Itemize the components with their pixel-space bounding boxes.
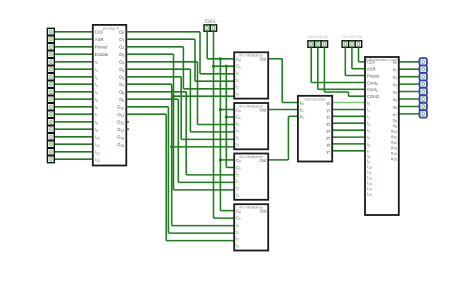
svg-text:Cont0: Cont0 — [367, 80, 378, 86]
svg-text:y5: y5 — [326, 135, 330, 141]
svg-text:o5: o5 — [393, 97, 397, 103]
svg-text:I1: I1 — [95, 67, 98, 73]
svg-text:ASR: ASR — [367, 67, 376, 72]
svg-text:I0: I0 — [236, 222, 239, 228]
svg-text:Out: Out — [260, 209, 268, 214]
svg-text:I3: I3 — [236, 142, 239, 148]
svg-text:C1: C1 — [236, 114, 241, 120]
svg-text:y6: y6 — [326, 142, 330, 148]
svg-text:Preset: Preset — [95, 45, 108, 50]
svg-text:CLK: CLK — [367, 60, 375, 65]
svg-text:C0: C0 — [236, 158, 241, 164]
svg-text:I0: I0 — [236, 121, 239, 127]
svg-text:y2: y2 — [326, 114, 330, 120]
svg-text:I2: I2 — [236, 185, 239, 191]
svg-text:C0C1: C0C1 — [205, 18, 216, 24]
svg-text:I1: I1 — [236, 128, 239, 134]
svg-text:C0: C0 — [236, 57, 241, 63]
svg-text:O10: O10 — [117, 105, 124, 111]
svg-text:Out: Out — [260, 158, 268, 163]
svg-text:O4: O4 — [119, 60, 124, 66]
svg-text:I5: I5 — [95, 97, 98, 103]
svg-text:C1: C1 — [236, 165, 241, 171]
svg-text:o7: o7 — [393, 112, 397, 118]
svg-text:o15: o15 — [391, 156, 397, 162]
svg-text:O5: O5 — [119, 67, 124, 73]
svg-text:COnt2: COnt2 — [367, 94, 380, 99]
svg-text:I6: I6 — [95, 105, 98, 111]
svg-text:I5: I5 — [367, 135, 370, 141]
svg-text:ASR: ASR — [95, 37, 104, 42]
svg-text:I0: I0 — [95, 60, 98, 66]
svg-text:I4: I4 — [367, 128, 370, 134]
svg-text:I12: I12 — [95, 150, 100, 156]
svg-text:O11: O11 — [117, 112, 124, 118]
svg-text:O1: O1 — [119, 37, 124, 43]
svg-text:b0: b0 — [300, 101, 304, 107]
svg-text:Out: Out — [260, 57, 268, 62]
svg-text:Preset: Preset — [367, 74, 380, 79]
svg-text:y1: y1 — [326, 107, 330, 113]
svg-text:o9: o9 — [393, 123, 397, 129]
svg-text:O6: O6 — [119, 75, 124, 81]
svg-text:3x8 Decoder: 3x8 Decoder — [304, 97, 326, 101]
svg-text:I3: I3 — [367, 121, 370, 127]
svg-text:I3: I3 — [236, 192, 239, 198]
svg-text:I3: I3 — [236, 91, 239, 97]
svg-text:I4: I4 — [95, 90, 98, 96]
svg-text:O8: O8 — [119, 90, 124, 96]
svg-text:I9: I9 — [95, 127, 98, 133]
svg-text:I1: I1 — [236, 229, 239, 235]
svg-text:o2: o2 — [393, 75, 397, 81]
svg-text:I8: I8 — [95, 120, 98, 126]
svg-text:CLK: CLK — [95, 30, 103, 35]
svg-text:I2: I2 — [236, 236, 239, 242]
svg-text:y0: y0 — [326, 101, 330, 107]
svg-text:I7: I7 — [95, 112, 98, 118]
svg-text:I0: I0 — [236, 172, 239, 178]
svg-text:I2: I2 — [236, 135, 239, 141]
svg-text:O3: O3 — [119, 52, 124, 58]
svg-text:I3: I3 — [236, 243, 239, 249]
svg-text:I2: I2 — [95, 75, 98, 81]
svg-text:C1: C1 — [236, 64, 241, 70]
svg-text:o1: o1 — [393, 67, 397, 73]
svg-text:y4: y4 — [326, 128, 330, 134]
svg-text:I2: I2 — [236, 84, 239, 90]
svg-text:o6: o6 — [393, 104, 397, 110]
svg-text:Cnt0Cnt1Cnt2: Cnt0Cnt1Cnt2 — [307, 35, 328, 39]
svg-text:y7: y7 — [326, 149, 330, 155]
svg-text:o3: o3 — [393, 82, 397, 88]
svg-text:Cont1: Cont1 — [367, 87, 378, 93]
svg-text:O9: O9 — [119, 97, 124, 103]
svg-text:O13: O13 — [117, 127, 124, 133]
svg-text:I13: I13 — [95, 157, 100, 163]
svg-text:O12: O12 — [117, 120, 124, 126]
svg-text:o4: o4 — [393, 90, 397, 96]
svg-text:I0: I0 — [367, 101, 370, 107]
svg-text:Out: Out — [260, 107, 268, 112]
svg-text:O7: O7 — [119, 82, 124, 88]
svg-text:b2: b2 — [300, 114, 304, 120]
svg-text:I3: I3 — [95, 82, 98, 88]
svg-text:y3: y3 — [326, 121, 330, 127]
svg-text:CLK ASR Prst: CLK ASR Prst — [342, 35, 363, 39]
svg-text:I0: I0 — [236, 71, 239, 77]
svg-text:I1: I1 — [367, 107, 370, 113]
svg-text:pc-reg-m: pc-reg-m — [103, 26, 120, 31]
svg-text:C1: C1 — [236, 216, 241, 222]
svg-text:O15: O15 — [117, 142, 124, 148]
svg-text:O2: O2 — [119, 45, 124, 51]
svg-text:I6: I6 — [367, 142, 370, 148]
svg-text:I10: I10 — [95, 135, 100, 141]
svg-text:O14: O14 — [117, 135, 124, 141]
svg-text:O0: O0 — [119, 30, 124, 36]
svg-text:I1: I1 — [236, 77, 239, 83]
svg-text:b1: b1 — [300, 107, 304, 113]
svg-text:Enable: Enable — [95, 52, 109, 57]
svg-text:I1: I1 — [236, 179, 239, 185]
svg-text:I2: I2 — [367, 114, 370, 120]
svg-text:I15: I15 — [367, 191, 372, 197]
svg-text:I11: I11 — [95, 142, 100, 148]
svg-text:C0: C0 — [236, 209, 241, 215]
svg-text:o0: o0 — [393, 60, 397, 66]
svg-text:C0: C0 — [236, 108, 241, 114]
